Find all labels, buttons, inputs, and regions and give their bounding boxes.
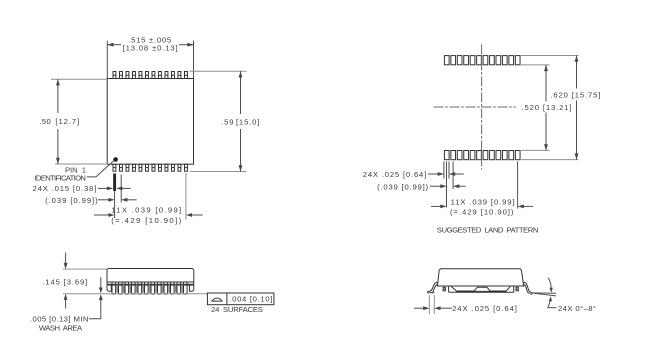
- dimension (.039 [0.99]) pin pitch ref: [45, 196, 136, 205]
- svg-text:11X .039 [0.99]: 11X .039 [0.99]: [451, 198, 515, 207]
- svg-text:24 SURFACES: 24 SURFACES: [211, 305, 263, 314]
- flatness feature control frame: [207, 293, 274, 305]
- lead thickness extension lines: [428, 295, 430, 314]
- svg-text:24X 0°–8°: 24X 0°–8°: [558, 304, 596, 313]
- pad 2 center extension line: [452, 162, 454, 190]
- gull-wing lead left: [428, 282, 439, 293]
- gull-wing lead right: [523, 282, 532, 294]
- svg-text:24X .025 [0.64]: 24X .025 [0.64]: [363, 170, 427, 179]
- wash area arrows and leader: [89, 277, 103, 319]
- svg-text:.145 [3.69]: .145 [3.69]: [42, 277, 87, 286]
- svg-text:SUGGESTED LAND PATTERN: SUGGESTED LAND PATTERN: [437, 225, 539, 234]
- pin 2 center extension line: [120, 175, 122, 203]
- horizontal center line: [434, 106, 516, 108]
- dimension (.039 [0.99]) pad pitch ref: [377, 182, 466, 191]
- land pads top row: [444, 56, 520, 65]
- dimension .620 [15.75] outer span: [521, 56, 600, 160]
- svg-text:.50: .50: [39, 117, 51, 126]
- pin 1 edge extension bar (thick): [113, 174, 116, 192]
- angle arc arrows: [548, 278, 557, 308]
- dimension 11X .039 [0.99] (=.429 [10.90]) pad pitch total: [431, 198, 533, 217]
- svg-text:.520 [13.21]: .520 [13.21]: [522, 103, 572, 112]
- dimension .50 [12.7] body height left: [39, 79, 108, 164]
- dimension 11X .039 [0.99] (=.429 [10.90]) pitch total: [94, 205, 203, 225]
- side view pin strip: [107, 282, 194, 294]
- pad 1 center extension line: [446, 162, 448, 208]
- svg-text:[13.08 ±0.13]: [13.08 ±0.13]: [123, 44, 178, 53]
- svg-text:.004 [0.10]: .004 [0.10]: [229, 295, 272, 304]
- dimension 24X .025 [0.64] lead thickness: [414, 304, 517, 313]
- lead cross-section mark left: [443, 287, 445, 291]
- dimension .145 [3.69] height: [42, 253, 107, 309]
- dimension .59 [15.0] overall height right: [190, 71, 260, 171]
- leader PIN 1 IDENTIFICATION: [87, 161, 114, 177]
- svg-text:[12.7]: [12.7]: [55, 117, 79, 126]
- svg-text:(.039 [0.99]): (.039 [0.99]): [45, 196, 98, 205]
- pin 1 identification dot: [113, 157, 118, 162]
- dimension 24X .015 [0.38] pin width: [33, 184, 131, 193]
- pin 1 center extension line: [114, 191, 116, 218]
- dimension .520 [13.21] inner span: [521, 65, 572, 150]
- svg-text:IDENTIFICATION: IDENTIFICATION: [34, 174, 85, 183]
- svg-text:.620 [15.75]: .620 [15.75]: [550, 91, 600, 100]
- svg-text:.005 [0.13] MIN: .005 [0.13] MIN: [30, 315, 88, 324]
- svg-text:(=.429 [10.90]): (=.429 [10.90]): [111, 216, 181, 225]
- pin row top (12 pins): [113, 72, 187, 79]
- svg-text:24X .015 [0.38]: 24X .015 [0.38]: [33, 184, 97, 193]
- seating plane line: [63, 293, 207, 295]
- package body U1 top view: [107, 79, 193, 165]
- dimension .515 ±.005 top width: [107, 35, 193, 78]
- land pads bottom row: [444, 151, 520, 160]
- pad 1 edge extension lines: [443, 162, 445, 179]
- dimension 24X .025 [0.64] pad width: [363, 170, 464, 179]
- svg-text:(.039 [0.99]): (.039 [0.99]): [377, 182, 428, 191]
- pin row bottom (12 pins): [113, 164, 187, 171]
- svg-text:24X .025 [0.64]: 24X .025 [0.64]: [452, 304, 517, 313]
- lead cross-section mark right: [516, 287, 518, 291]
- svg-text:[15.0]: [15.0]: [236, 118, 260, 127]
- foot angle reference lines: [533, 292, 557, 294]
- package body side view: [107, 269, 194, 286]
- pin 12 center extension line: [185, 173, 187, 220]
- svg-text:WASH AREA: WASH AREA: [39, 323, 83, 332]
- vertical center line: [481, 44, 483, 169]
- pad 12 center extension line: [517, 162, 519, 209]
- svg-text:.59: .59: [221, 118, 234, 127]
- svg-text:11X .039 [0.99]: 11X .039 [0.99]: [111, 205, 181, 214]
- package body end view: [437, 269, 523, 293]
- svg-text:(=.429 [10.90]): (=.429 [10.90]): [450, 208, 514, 217]
